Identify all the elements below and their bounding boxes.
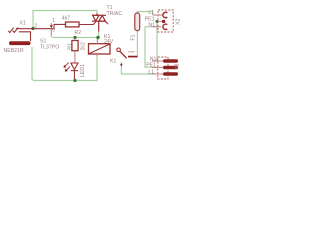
svg-text:N1: N1 <box>148 22 155 28</box>
svg-text:4k7: 4k7 <box>62 16 70 22</box>
svg-text:TL37PO: TL37PO <box>40 44 59 50</box>
svg-text:TRIAC: TRIAC <box>107 11 123 17</box>
svg-text:0: 0 <box>52 28 55 34</box>
svg-text:F1: F1 <box>131 34 137 40</box>
svg-text:24V: 24V <box>104 39 114 45</box>
svg-text:LED1: LED1 <box>80 64 86 77</box>
svg-text:N1: N1 <box>150 56 157 62</box>
svg-text:R1: R1 <box>67 43 73 50</box>
svg-text:X1: X1 <box>20 21 26 27</box>
svg-text:PE1: PE1 <box>146 63 156 69</box>
svg-text:X3: X3 <box>175 64 181 70</box>
svg-text:2: 2 <box>34 24 37 30</box>
svg-text:L1: L1 <box>148 10 154 16</box>
svg-text:X2: X2 <box>176 19 181 25</box>
svg-text:K1: K1 <box>110 58 116 64</box>
svg-text:R2: R2 <box>75 30 82 36</box>
svg-text:2k2: 2k2 <box>81 42 87 50</box>
svg-text:NEB21R: NEB21R <box>4 48 24 54</box>
svg-text:L1: L1 <box>148 69 154 75</box>
svg-text:1: 1 <box>52 18 55 24</box>
